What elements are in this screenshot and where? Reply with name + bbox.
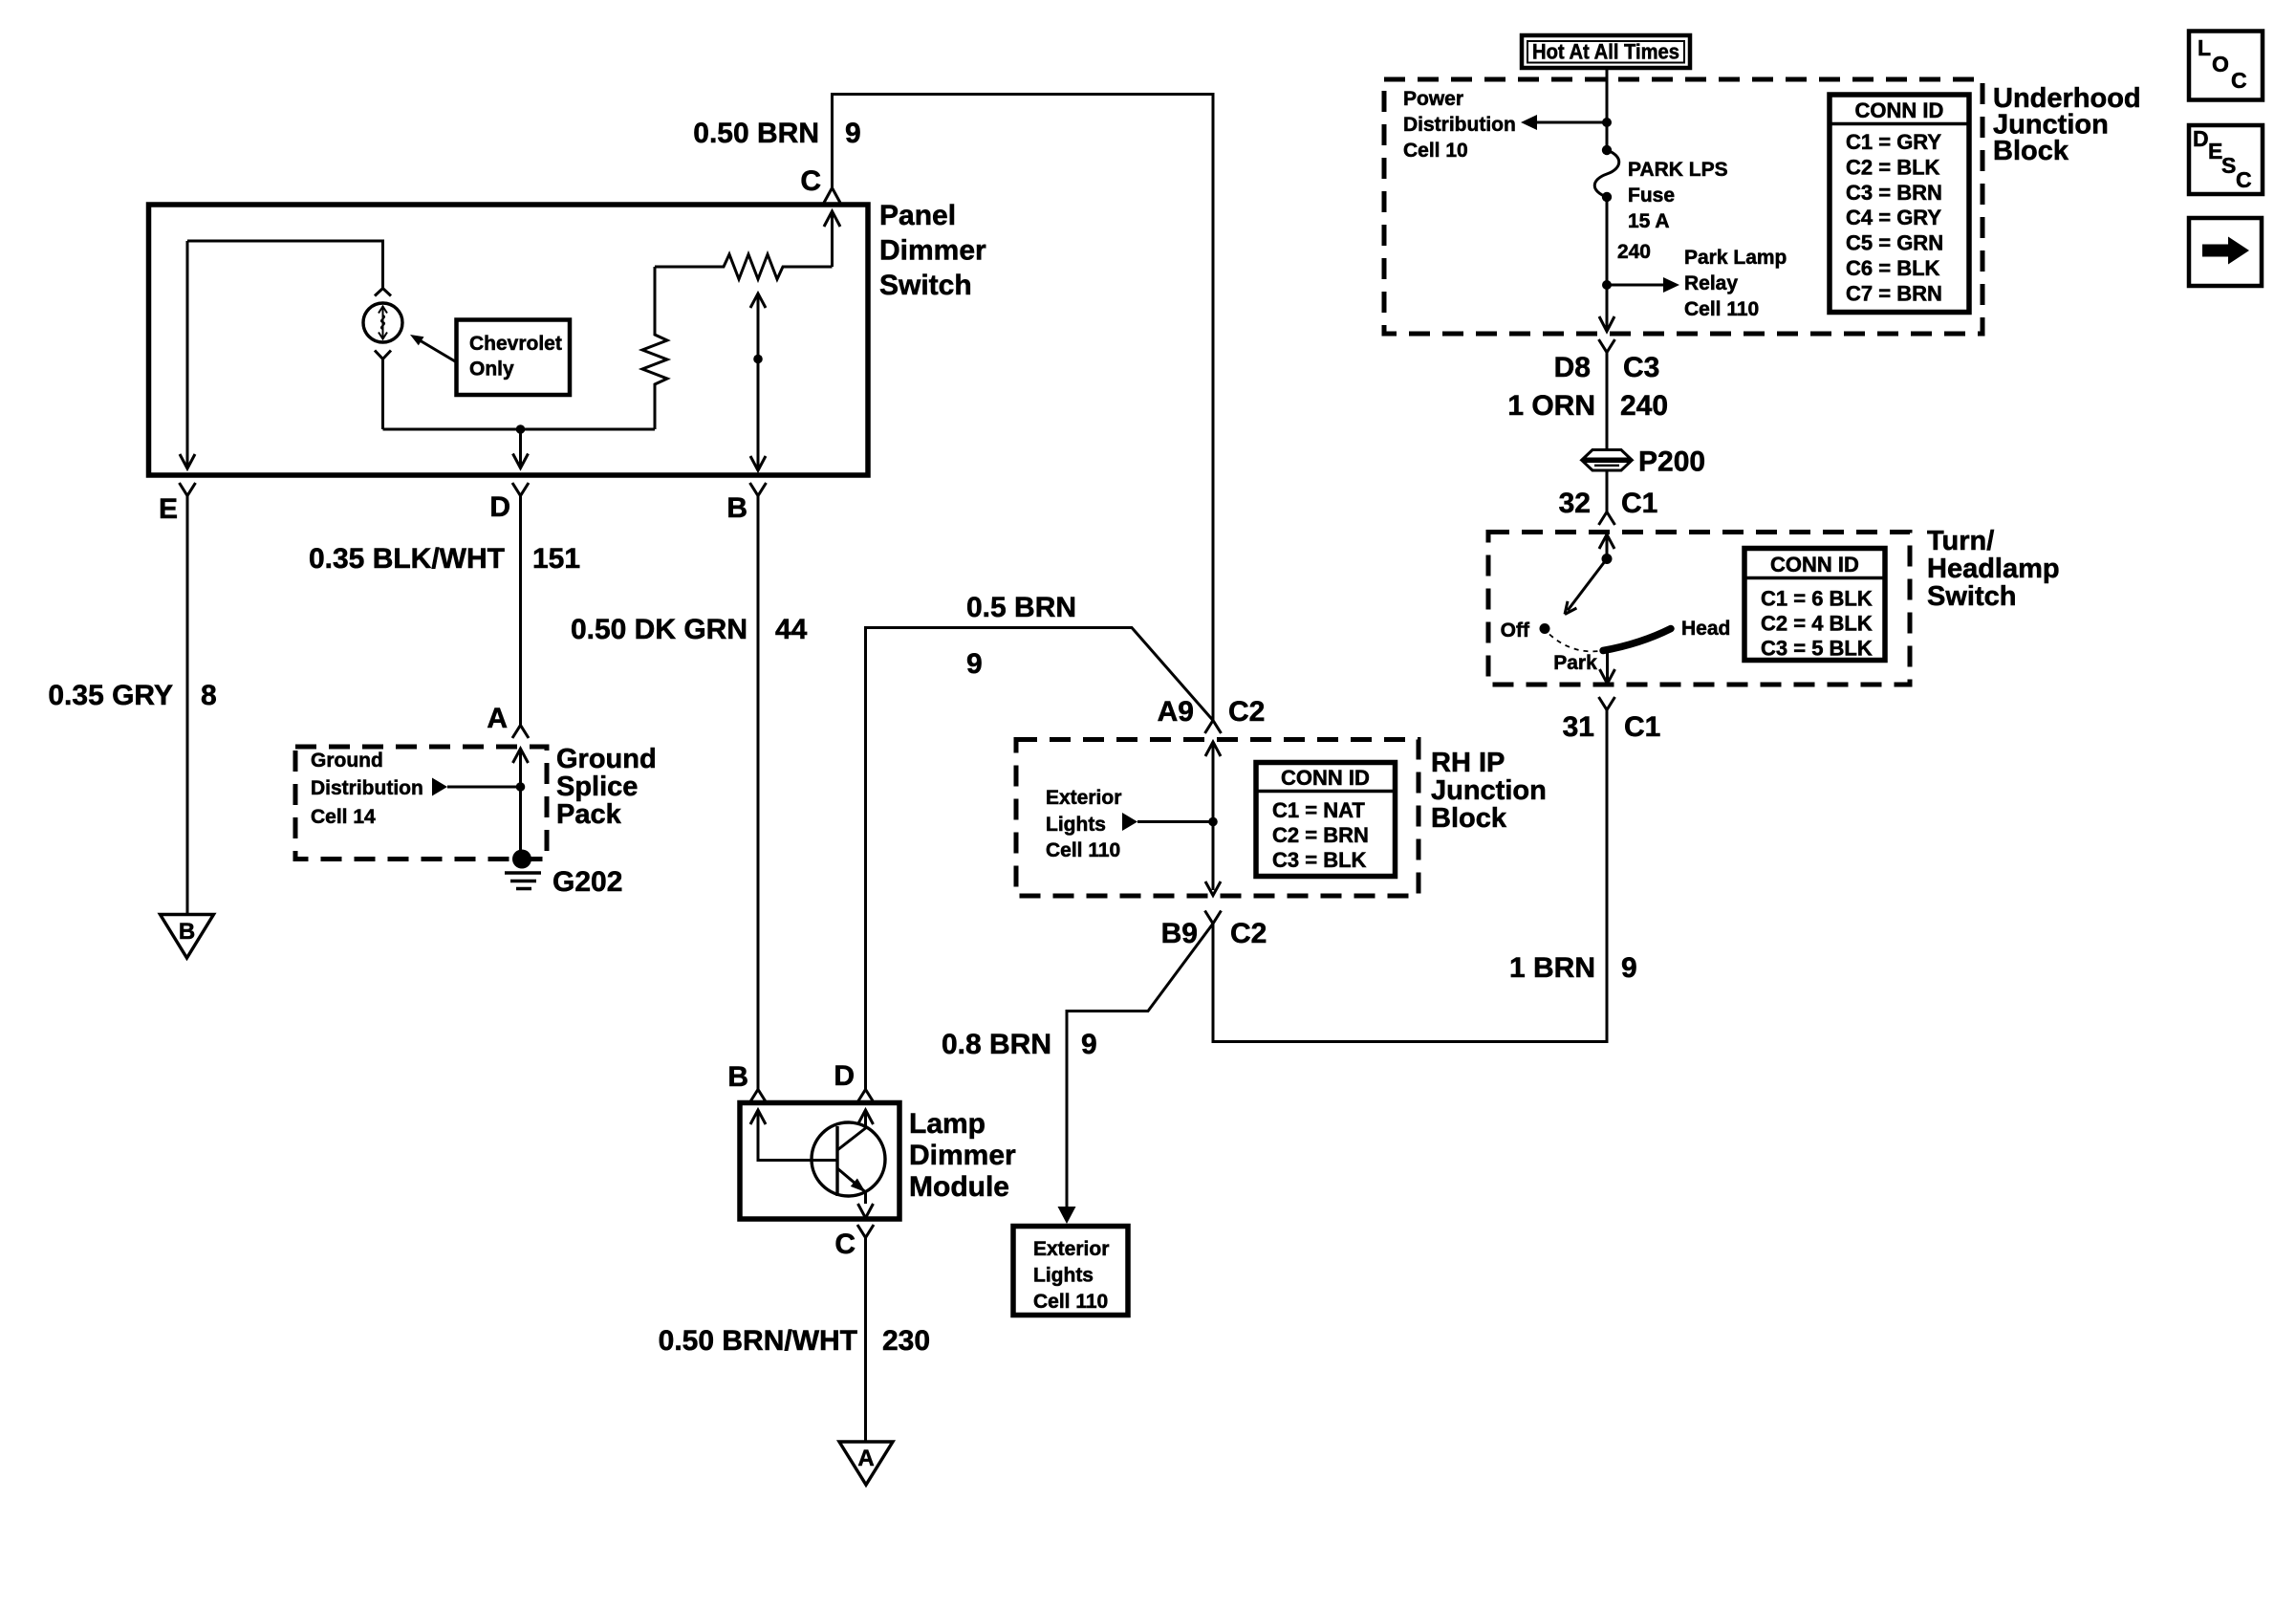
svg-text:0.50 BRN/WHT: 0.50 BRN/WHT	[659, 1325, 857, 1357]
svg-text:31: 31	[1563, 711, 1594, 743]
terminal E letter	[159, 493, 178, 525]
svg-text:Power: Power	[1403, 88, 1463, 110]
label Off	[1501, 620, 1530, 642]
label RH IP Junction Block	[1431, 748, 1547, 834]
label 1 ORN circuit 240	[1507, 390, 1668, 422]
svg-text:Dimmer: Dimmer	[909, 1140, 1016, 1171]
terminal B letter	[726, 492, 747, 524]
node: park lamp relay tap	[1602, 280, 1612, 290]
svg-text:C: C	[800, 165, 821, 197]
ground G202 symbol	[505, 850, 541, 889]
svg-text:Headlamp: Headlamp	[1927, 554, 2060, 584]
svg-text:Distribution: Distribution	[1403, 114, 1516, 136]
svg-text:S: S	[2221, 153, 2236, 178]
svg-text:Park Lamp: Park Lamp	[1684, 247, 1787, 269]
pin labels A9 C2	[1158, 696, 1266, 728]
svg-text:9: 9	[1621, 952, 1637, 984]
svg-text:C1 = 6 BLK: C1 = 6 BLK	[1761, 587, 1873, 611]
ground distribution arrow	[432, 778, 521, 796]
svg-text:Off: Off	[1501, 620, 1530, 642]
svg-text:Relay: Relay	[1684, 272, 1738, 294]
junction dot (block)	[1208, 817, 1218, 827]
svg-text:C5 = GRN: C5 = GRN	[1846, 231, 1943, 255]
fuse PARK LPS 15A	[1594, 145, 1619, 202]
svg-text:Panel: Panel	[879, 200, 956, 231]
svg-text:C: C	[2231, 68, 2247, 93]
lamp dimmer module box	[740, 1103, 899, 1220]
arrow out of underhood block	[1599, 316, 1614, 332]
svg-text:Lights: Lights	[1033, 1265, 1094, 1287]
arrow into splice pack	[513, 749, 529, 850]
svg-text:Block: Block	[1993, 136, 2069, 166]
pin labels B9 C2	[1161, 918, 1267, 949]
arrow into switch	[1599, 534, 1614, 558]
svg-text:32: 32	[1559, 488, 1591, 519]
park-head contact bar	[1603, 629, 1671, 651]
connector fork below lamp	[375, 351, 391, 430]
RH IP junction block dashed box	[1016, 740, 1419, 897]
svg-text:C: C	[834, 1229, 856, 1260]
svg-text:D: D	[489, 491, 510, 523]
svg-text:C2: C2	[1228, 696, 1265, 728]
terminal C letter (module)	[834, 1229, 856, 1260]
terminal B fork (module)	[750, 1090, 767, 1103]
svg-text:Exterior: Exterior	[1046, 787, 1121, 809]
svg-text:Ground: Ground	[556, 744, 657, 774]
wire park contact down	[1606, 651, 1609, 683]
dashed travel arc	[1549, 635, 1599, 652]
svg-text:0.50 BRN: 0.50 BRN	[693, 118, 819, 149]
svg-text:Fuse: Fuse	[1628, 185, 1675, 207]
resistor (horizontal) in panel dimmer switch	[655, 254, 833, 279]
svg-text:Switch: Switch	[1927, 581, 2016, 612]
wire from hot box	[1606, 68, 1609, 150]
connector fork 31/C1	[1599, 697, 1615, 710]
label 0.35 BLK/WHT circuit 151	[309, 543, 580, 575]
svg-text:C7 = BRN: C7 = BRN	[1846, 281, 1942, 305]
svg-text:Cell 10: Cell 10	[1403, 140, 1468, 162]
svg-text:230: 230	[882, 1325, 930, 1357]
label Power Distribution Cell 10	[1403, 88, 1516, 162]
svg-text:Cell 110: Cell 110	[1684, 298, 1759, 320]
arrow out of block	[1205, 881, 1221, 896]
svg-text:D8: D8	[1554, 352, 1591, 383]
label 0.5 BRN circuit 9	[966, 592, 1076, 680]
park lamp relay arrow	[1607, 277, 1679, 293]
svg-text:C2 = BLK: C2 = BLK	[1846, 155, 1940, 179]
svg-text:9: 9	[1081, 1029, 1097, 1060]
label 0.8 BRN circuit 9	[942, 1029, 1097, 1060]
svg-text:C3 = BRN: C3 = BRN	[1846, 181, 1942, 205]
svg-text:C1 = NAT: C1 = NAT	[1272, 798, 1365, 822]
svg-text:CONN ID: CONN ID	[1770, 553, 1859, 577]
node: power distribution tap	[1602, 118, 1612, 127]
label 0.35 GRY circuit 8	[48, 680, 216, 711]
wire: terminal C up and over to long vertical	[833, 95, 1214, 721]
svg-text:Cell 110: Cell 110	[1033, 1291, 1108, 1313]
terminal B fork	[750, 483, 767, 496]
ground splice pack dashed box	[295, 747, 547, 859]
svg-text:0.50 DK GRN: 0.50 DK GRN	[571, 614, 747, 645]
arrow out of switch	[1600, 669, 1615, 684]
wire P200 to switch	[1606, 470, 1609, 512]
svg-text:B: B	[179, 919, 195, 945]
svg-text:D: D	[2193, 126, 2209, 151]
svg-text:Splice: Splice	[556, 772, 638, 802]
CONN ID table (headlamp switch)	[1744, 549, 1885, 661]
label 0.50 BRN/WHT circuit 230	[659, 1325, 930, 1357]
pin labels 32 C1	[1559, 488, 1658, 519]
svg-text:Head: Head	[1681, 618, 1730, 640]
svg-text:Module: Module	[909, 1171, 1009, 1203]
exterior lights feed arrow	[1122, 813, 1213, 831]
connector fork D8/C3	[1599, 339, 1615, 449]
svg-text:C1: C1	[1624, 711, 1660, 743]
terminal D fork (module)	[857, 1090, 874, 1103]
node: Off contact	[1540, 623, 1550, 634]
off-page triangle A	[839, 1442, 893, 1485]
label Underhood Junction Block	[1993, 83, 2141, 166]
svg-text:1 BRN: 1 BRN	[1509, 952, 1595, 984]
svg-text:Ground: Ground	[311, 750, 383, 772]
label 0.50 BRN circuit 9	[693, 118, 860, 149]
svg-text:0.35 GRY: 0.35 GRY	[48, 680, 173, 711]
switch wiper arrow	[1565, 559, 1607, 615]
arrow up at D inside module	[858, 1110, 874, 1129]
connector fork B9/C2	[1205, 911, 1222, 925]
svg-text:0.35 BLK/WHT: 0.35 BLK/WHT	[309, 543, 505, 575]
wire E down	[186, 496, 189, 914]
svg-text:9: 9	[966, 648, 983, 680]
connector fork A9/C2	[1205, 721, 1222, 734]
svg-text:1 ORN: 1 ORN	[1507, 390, 1595, 422]
label: Panel Dimmer Switch	[879, 200, 986, 301]
resistor (vertical) in panel dimmer switch	[642, 267, 667, 429]
arrow into block + internal wire	[1205, 742, 1221, 890]
transistor Q1	[812, 1122, 885, 1204]
label Turn/Headlamp Switch	[1927, 526, 2060, 612]
wire D down	[519, 496, 522, 726]
arrow up at B inside module	[750, 1110, 837, 1161]
svg-text:Block: Block	[1431, 803, 1507, 834]
wiper wire B inside box	[750, 294, 766, 470]
svg-text:Junction: Junction	[1431, 775, 1547, 806]
pin labels D8 C3	[1554, 352, 1660, 383]
wire 1 BRN 9	[1213, 710, 1607, 1042]
svg-text:C1 = GRY: C1 = GRY	[1846, 130, 1941, 154]
label 1 BRN circuit 9	[1509, 952, 1637, 984]
CONN ID table (RH IP)	[1256, 763, 1396, 877]
svg-text:A9: A9	[1158, 696, 1194, 728]
wire 0.5 BRN 9	[866, 628, 1214, 1090]
svg-text:RH IP: RH IP	[1431, 748, 1505, 778]
connector fork A	[512, 726, 529, 739]
svg-text:A: A	[857, 1446, 874, 1471]
off-page triangle B	[161, 915, 214, 959]
svg-text:P200: P200	[1638, 446, 1705, 478]
lamp (Chevrolet only bulb)	[363, 303, 402, 342]
svg-text:CONN ID: CONN ID	[1855, 98, 1944, 122]
label Lamp Dimmer Module	[909, 1108, 1016, 1203]
svg-text:O: O	[2212, 52, 2229, 76]
svg-text:Exterior: Exterior	[1033, 1238, 1109, 1260]
exterior lights cell 110 box	[1013, 1227, 1128, 1316]
CONN ID table (underhood)	[1830, 95, 1969, 313]
power distribution arrow	[1521, 115, 1607, 130]
label Exterior Lights Cell 110 (block)	[1046, 787, 1121, 861]
svg-text:Distribution: Distribution	[311, 777, 423, 799]
label G202	[552, 866, 622, 898]
svg-text:C3 = 5 BLK: C3 = 5 BLK	[1761, 637, 1873, 661]
label Ground Distribution Cell 14	[311, 750, 423, 828]
svg-text:9: 9	[845, 118, 861, 149]
svg-text:A: A	[487, 703, 508, 734]
svg-text:Chevrolet: Chevrolet	[469, 333, 562, 355]
splice P200	[1582, 450, 1632, 471]
svg-text:44: 44	[775, 614, 808, 645]
svg-text:0.5 BRN: 0.5 BRN	[966, 592, 1076, 623]
svg-text:C3: C3	[1623, 352, 1659, 383]
svg-text:B: B	[726, 492, 747, 524]
label Head	[1681, 618, 1730, 640]
terminal C letter	[800, 165, 821, 197]
DESC icon box	[2189, 125, 2263, 194]
connector fork at C	[824, 188, 840, 204]
svg-text:D: D	[834, 1060, 855, 1092]
node: switch common	[1602, 554, 1613, 564]
svg-text:C3 = BLK: C3 = BLK	[1272, 848, 1367, 872]
wire 0.8 BRN 9	[1067, 924, 1213, 1208]
wire C down to triangle A	[864, 1238, 867, 1442]
wire below fuse	[1606, 197, 1609, 330]
svg-text:Cell 14: Cell 14	[311, 806, 376, 828]
svg-text:E: E	[159, 493, 178, 525]
svg-text:C1: C1	[1621, 488, 1657, 519]
junction dot on wiper	[753, 355, 763, 364]
arrow down at D inside box	[513, 429, 529, 468]
underhood junction block dashed box	[1384, 79, 1982, 334]
wire: lamp bottom run	[383, 428, 656, 431]
svg-text:C6 = BLK: C6 = BLK	[1846, 256, 1940, 280]
svg-text:Switch: Switch	[879, 270, 972, 301]
svg-text:Lamp: Lamp	[909, 1108, 986, 1140]
label 0.50 DK GRN circuit 44	[571, 614, 808, 645]
LOC icon box	[2189, 32, 2263, 100]
svg-text:L: L	[2198, 35, 2211, 60]
svg-text:PARK LPS: PARK LPS	[1628, 159, 1728, 181]
next-page arrow icon box	[2189, 218, 2262, 286]
svg-text:240: 240	[1617, 241, 1651, 263]
arrowhead into exterior lights	[1058, 1207, 1076, 1224]
arrow from callout to lamp	[410, 335, 456, 362]
label Ground Splice Pack	[556, 744, 657, 830]
label Park Lamp Relay Cell 110	[1684, 247, 1787, 320]
terminal E fork	[180, 483, 196, 496]
turn/headlamp switch dashed box	[1488, 533, 1910, 685]
wire B down	[757, 496, 760, 1090]
Chevrolet Only callout box	[457, 320, 571, 396]
svg-text:Lights: Lights	[1046, 814, 1106, 836]
label 240 (fuse output)	[1617, 241, 1651, 263]
svg-text:G202: G202	[552, 866, 622, 898]
svg-text:Park: Park	[1553, 652, 1597, 674]
terminal D letter (module)	[834, 1060, 855, 1092]
wire: inner left loop to lamp	[187, 241, 383, 468]
junction dot splice	[516, 782, 526, 792]
svg-text:C2 = 4 BLK: C2 = 4 BLK	[1761, 612, 1873, 636]
svg-text:Dimmer: Dimmer	[879, 235, 986, 267]
terminal A letter	[487, 703, 508, 734]
label P200	[1638, 446, 1705, 478]
svg-text:240: 240	[1620, 390, 1668, 422]
arrow down at C inside module	[858, 1204, 874, 1218]
terminal B letter (module)	[727, 1061, 748, 1093]
connector fork above lamp	[375, 289, 391, 296]
connector fork 32/C1	[1599, 512, 1615, 526]
terminal D letter	[489, 491, 510, 523]
arrow into box at C	[824, 211, 840, 267]
terminal D fork	[512, 483, 529, 496]
svg-text:C4 = GRY: C4 = GRY	[1846, 206, 1941, 229]
svg-text:8: 8	[201, 680, 217, 711]
label PARK LPS Fuse 15 A	[1628, 159, 1728, 232]
panel dimmer switch box	[149, 205, 869, 475]
svg-text:Only: Only	[469, 359, 514, 381]
svg-text:CONN ID: CONN ID	[1281, 766, 1370, 790]
junction dot on lamp run	[516, 424, 526, 434]
svg-text:15 A: 15 A	[1628, 210, 1670, 232]
svg-text:Turn/: Turn/	[1927, 526, 1994, 556]
arrow down at E inside box	[180, 454, 195, 468]
svg-text:B: B	[727, 1061, 748, 1093]
svg-text:Hot At All Times: Hot At All Times	[1532, 40, 1679, 64]
pin labels 31 C1	[1563, 711, 1661, 743]
svg-text:C: C	[2236, 167, 2252, 192]
svg-text:Cell 110: Cell 110	[1046, 839, 1120, 861]
svg-text:0.8 BRN: 0.8 BRN	[942, 1029, 1051, 1060]
svg-text:Pack: Pack	[556, 799, 622, 830]
Hot At All Times box	[1522, 35, 1690, 68]
svg-text:C2 = BRN: C2 = BRN	[1272, 823, 1369, 847]
svg-text:151: 151	[532, 543, 580, 575]
label Park	[1553, 652, 1597, 674]
svg-text:C2: C2	[1230, 918, 1267, 949]
svg-text:B9: B9	[1161, 918, 1198, 949]
terminal C fork (module)	[857, 1225, 874, 1238]
